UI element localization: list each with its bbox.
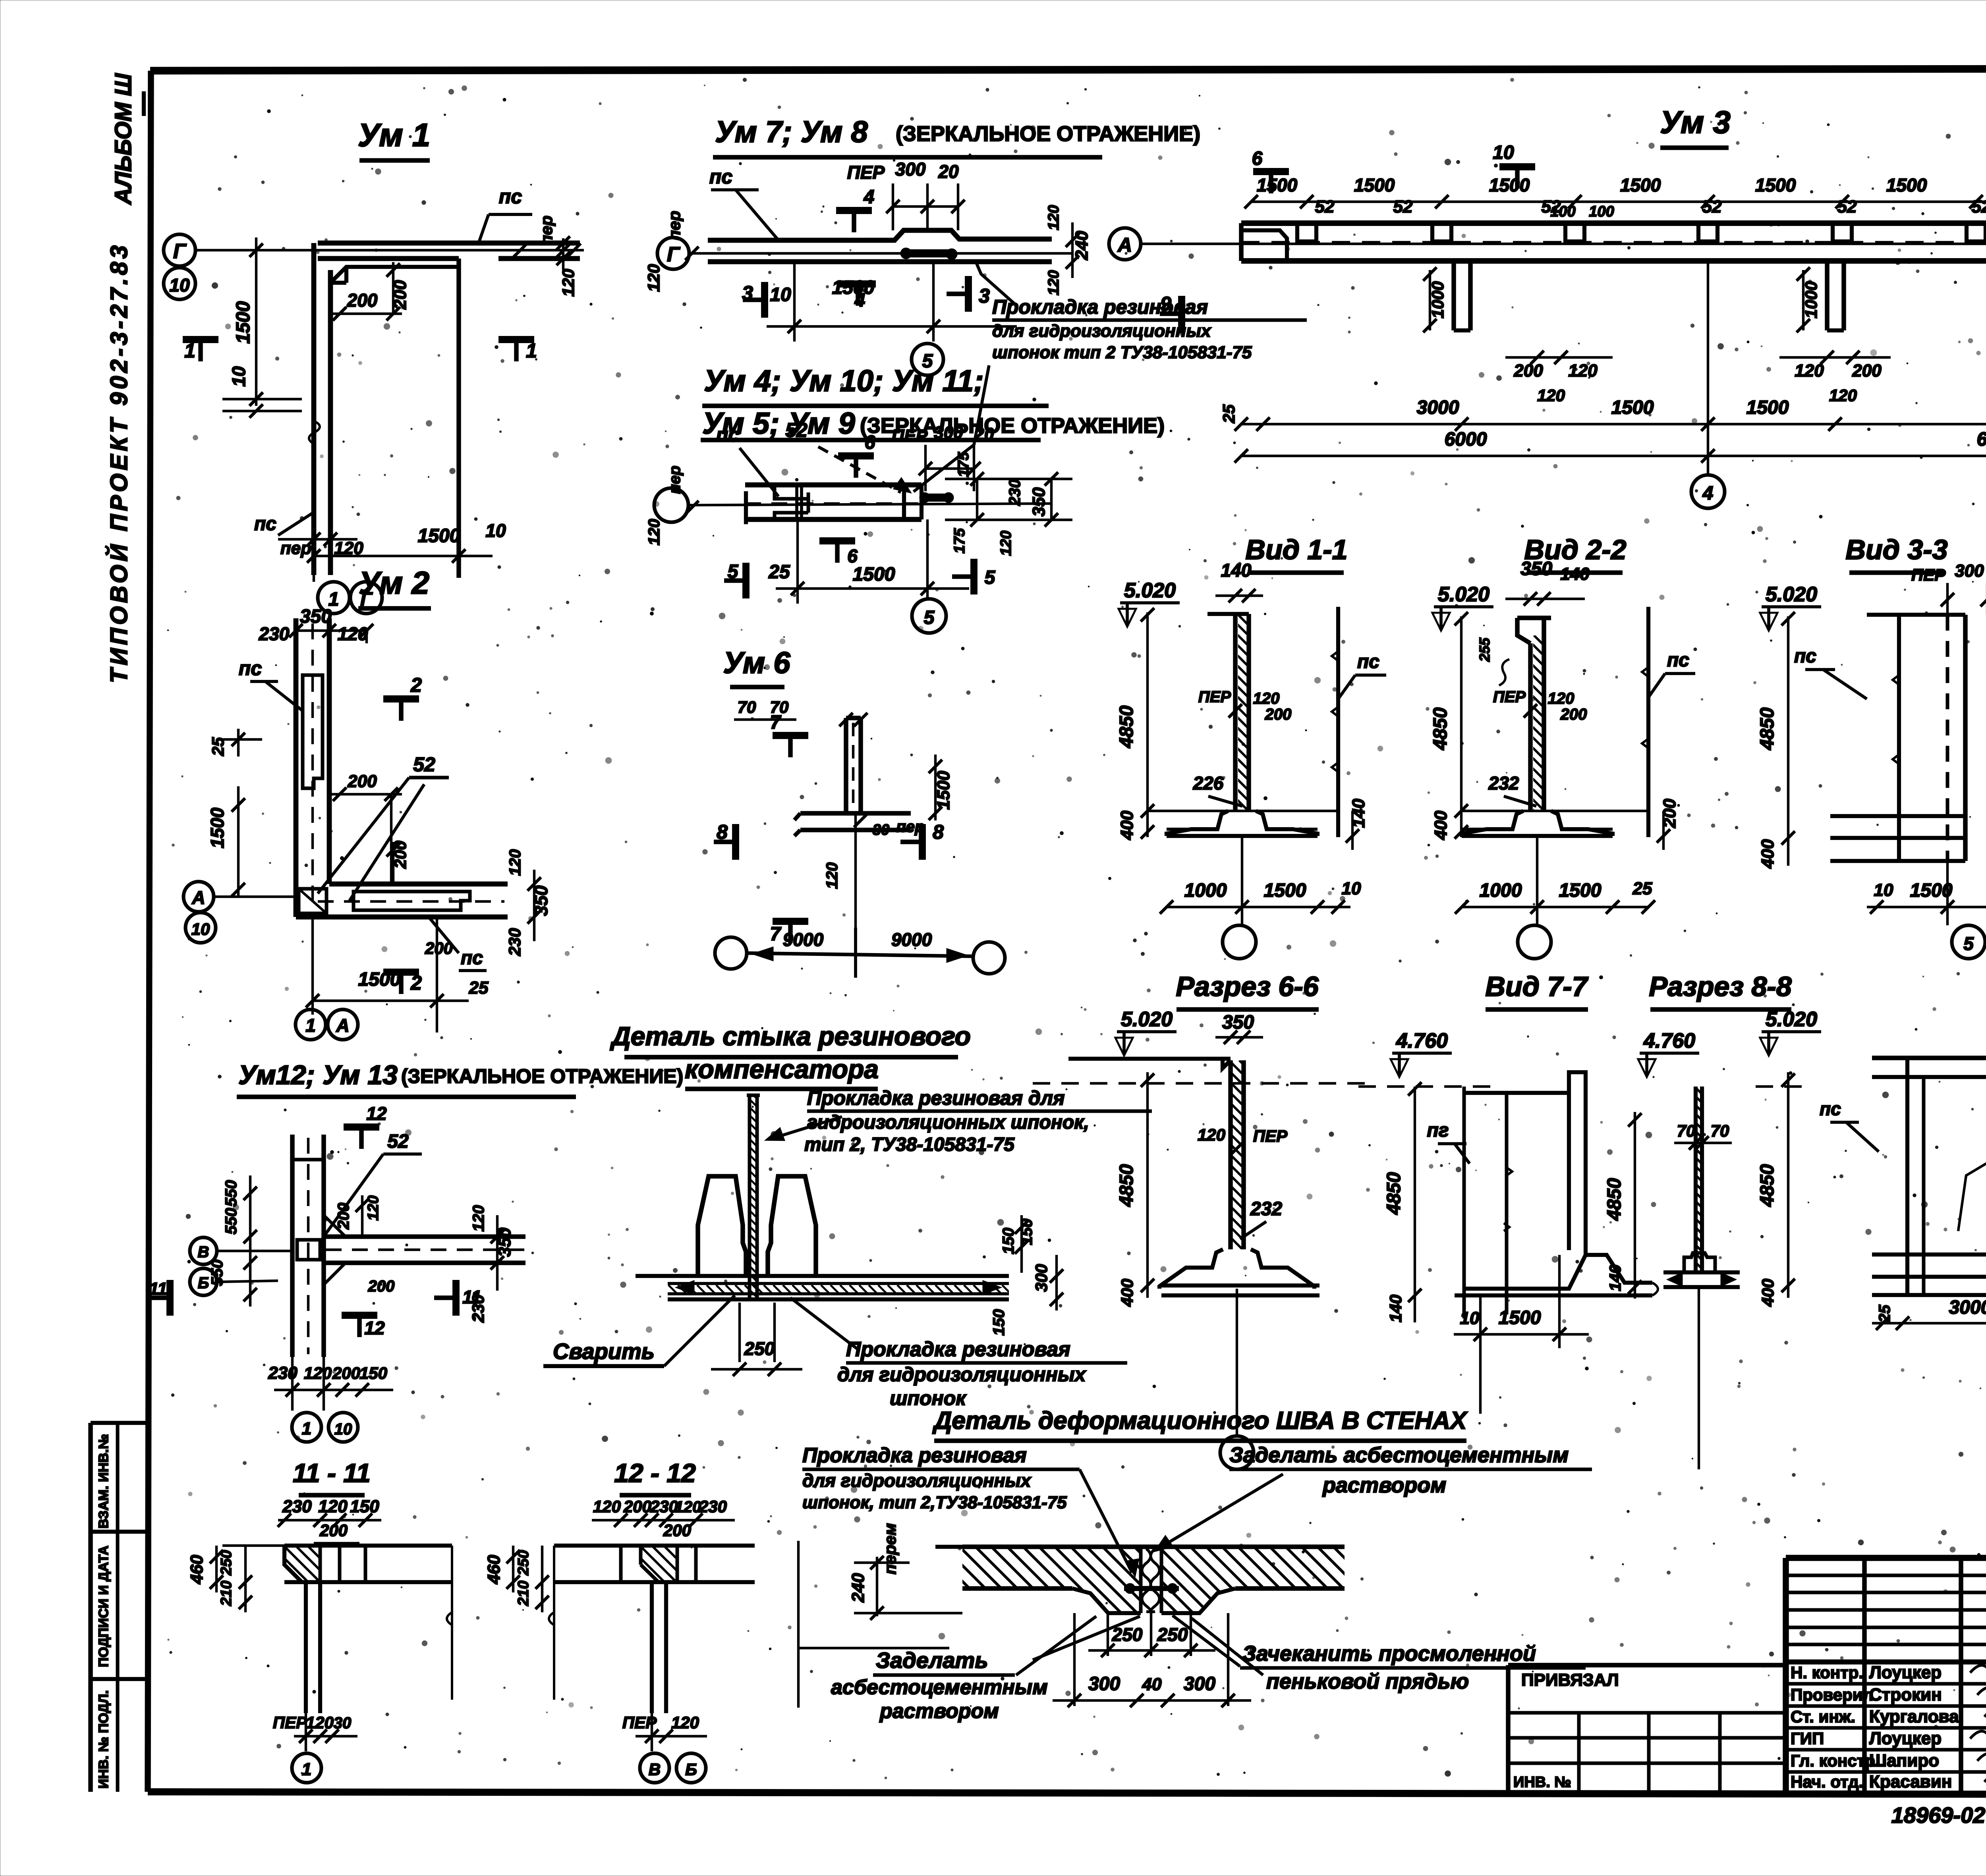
svg-text:400: 400: [1758, 1279, 1777, 1307]
svg-text:Проверил: Проверил: [1791, 1685, 1873, 1704]
svg-text:120: 120: [470, 1205, 487, 1232]
svg-text:150: 150: [990, 1309, 1008, 1336]
svg-text:25: 25: [469, 978, 489, 998]
svg-text:Лоуцкер: Лоуцкер: [1869, 1663, 1942, 1682]
svg-text:Ум 7; Ум 8: Ум 7; Ум 8: [715, 115, 868, 149]
svg-text:ВЗАМ. ИНВ.№: ВЗАМ. ИНВ.№: [96, 1434, 111, 1529]
svg-text:350: 350: [531, 885, 551, 916]
svg-text:25: 25: [1876, 1305, 1893, 1323]
svg-text:Шапиро: Шапиро: [1869, 1751, 1939, 1770]
svg-text:120: 120: [1795, 361, 1824, 380]
svg-text:1500: 1500: [1755, 175, 1796, 195]
svg-text:200: 200: [663, 1521, 691, 1540]
svg-text:10: 10: [334, 1421, 352, 1438]
svg-text:400: 400: [1758, 839, 1777, 869]
svg-text:1500: 1500: [1746, 397, 1789, 418]
svg-text:пс: пс: [499, 185, 522, 208]
svg-text:пс: пс: [1794, 646, 1816, 667]
svg-text:120: 120: [1253, 690, 1280, 707]
svg-text:8: 8: [933, 821, 944, 843]
svg-text:4: 4: [864, 187, 875, 208]
svg-text:3: 3: [979, 285, 990, 307]
svg-text:Сварить: Сварить: [553, 1339, 655, 1364]
svg-text:120: 120: [1568, 361, 1598, 380]
svg-text:10: 10: [191, 920, 210, 938]
svg-text:175: 175: [951, 528, 968, 553]
svg-text:5.020: 5.020: [1766, 1008, 1817, 1031]
svg-text:350: 350: [1520, 558, 1552, 579]
svg-text:460: 460: [187, 1555, 207, 1585]
svg-text:1500: 1500: [1910, 880, 1953, 901]
svg-text:1: 1: [184, 340, 195, 362]
svg-text:1: 1: [305, 1015, 316, 1036]
svg-text:1500: 1500: [832, 277, 875, 298]
svg-text:шпонок: шпонок: [890, 1387, 967, 1409]
svg-text:Ум 2: Ум 2: [359, 565, 429, 600]
svg-text:400: 400: [1431, 811, 1451, 840]
svg-text:140: 140: [1221, 560, 1252, 581]
svg-text:200: 200: [390, 280, 410, 310]
svg-text:раствором: раствором: [879, 1700, 999, 1723]
svg-text:5.020: 5.020: [1124, 579, 1176, 602]
svg-text:300: 300: [895, 159, 926, 179]
svg-text:255: 255: [1476, 637, 1493, 662]
svg-text:10: 10: [770, 284, 791, 305]
svg-text:для гидроизоляционных: для гидроизоляционных: [802, 1470, 1032, 1491]
svg-text:Деталь деформационного ШВА В: Деталь деформационного ШВА В СТЕНАХ: [932, 1407, 1468, 1434]
svg-text:(ЗЕРКАЛЬНОЕ ОТРАЖЕНИЕ): (ЗЕРКАЛЬНОЕ ОТРАЖЕНИЕ): [401, 1065, 683, 1087]
svg-text:120: 120: [1045, 205, 1062, 230]
svg-text:25: 25: [1632, 879, 1652, 898]
svg-text:230: 230: [259, 623, 290, 644]
svg-text:Разрез 8-8: Разрез 8-8: [1649, 971, 1791, 1002]
svg-text:200: 200: [332, 1364, 360, 1382]
svg-text:ПОДПИСИ И ДАТА: ПОДПИСИ И ДАТА: [96, 1546, 111, 1667]
svg-text:52: 52: [1315, 197, 1335, 216]
svg-text:5.020: 5.020: [1121, 1008, 1173, 1031]
svg-text:Б: Б: [198, 1274, 209, 1292]
svg-text:120: 120: [675, 1498, 701, 1516]
svg-text:Заделать асбестоцементным: Заделать асбестоцементным: [1229, 1443, 1569, 1467]
svg-text:пер: пер: [537, 216, 556, 245]
svg-text:пс: пс: [709, 166, 733, 188]
svg-text:2: 2: [410, 972, 422, 994]
svg-text:пер: пер: [280, 538, 311, 558]
svg-text:30: 30: [873, 822, 889, 838]
svg-text:120: 120: [559, 269, 578, 297]
svg-text:1500: 1500: [934, 771, 953, 810]
svg-text:200: 200: [335, 1203, 352, 1230]
svg-text:для гидроизоляционных: для гидроизоляционных: [837, 1363, 1087, 1386]
svg-text:1500: 1500: [1257, 175, 1298, 195]
svg-text:5: 5: [985, 567, 996, 588]
svg-text:5.020: 5.020: [1766, 583, 1817, 606]
svg-text:пс: пс: [239, 657, 262, 679]
svg-text:9000: 9000: [783, 929, 824, 950]
svg-text:А: А: [1117, 234, 1132, 256]
svg-text:25: 25: [1219, 404, 1238, 423]
svg-text:300: 300: [1032, 1264, 1051, 1292]
svg-text:раствором: раствором: [1322, 1473, 1446, 1497]
svg-text:Г: Г: [667, 243, 680, 266]
svg-text:200: 200: [347, 772, 377, 791]
svg-text:1000: 1000: [1184, 880, 1227, 901]
svg-text:4850: 4850: [1116, 705, 1137, 748]
svg-text:1500: 1500: [1499, 1307, 1541, 1328]
svg-text:226: 226: [1193, 773, 1224, 793]
svg-text:5.020: 5.020: [1438, 583, 1489, 606]
svg-text:70: 70: [1677, 1121, 1696, 1140]
svg-text:240: 240: [1072, 231, 1092, 261]
svg-text:200: 200: [368, 1278, 395, 1295]
svg-text:пс: пс: [254, 513, 276, 535]
svg-text:20: 20: [974, 425, 994, 444]
svg-text:550: 550: [209, 1260, 226, 1286]
svg-text:11: 11: [462, 1287, 481, 1307]
svg-text:25: 25: [768, 562, 790, 583]
svg-text:175: 175: [955, 452, 972, 477]
svg-text:Ум 3: Ум 3: [1660, 104, 1731, 140]
svg-text:гидроизоляционных шпонок,: гидроизоляционных шпонок,: [807, 1112, 1089, 1133]
svg-text:120: 120: [304, 1364, 332, 1382]
svg-text:1500: 1500: [1886, 175, 1927, 195]
svg-text:Вид 1-1: Вид 1-1: [1245, 534, 1347, 565]
svg-text:ГИП: ГИП: [1791, 1729, 1824, 1748]
svg-text:12: 12: [366, 1103, 387, 1124]
svg-text:11 - 11: 11 - 11: [293, 1458, 371, 1488]
svg-text:120: 120: [365, 1195, 382, 1220]
svg-text:230: 230: [505, 928, 524, 956]
svg-text:6000: 6000: [1445, 429, 1487, 450]
svg-text:6: 6: [847, 546, 858, 566]
svg-text:Г: Г: [173, 240, 187, 263]
svg-text:Ст. инж.: Ст. инж.: [1791, 1707, 1855, 1726]
svg-text:40: 40: [1142, 1675, 1162, 1694]
svg-text:200: 200: [623, 1497, 651, 1516]
svg-text:1: 1: [302, 1760, 311, 1779]
svg-text:4.760: 4.760: [1643, 1029, 1695, 1052]
svg-text:100: 100: [1589, 203, 1614, 220]
svg-text:4.760: 4.760: [1396, 1029, 1448, 1052]
svg-text:4850: 4850: [1604, 1178, 1625, 1221]
svg-text:300: 300: [1955, 561, 1984, 581]
svg-text:Кургалова: Кургалова: [1869, 1707, 1959, 1726]
svg-text:120: 120: [506, 849, 524, 876]
svg-text:120: 120: [338, 623, 368, 644]
svg-text:250: 250: [515, 1550, 532, 1575]
svg-text:400: 400: [1117, 811, 1137, 840]
svg-text:4850: 4850: [1383, 1172, 1404, 1215]
svg-text:210: 210: [515, 1581, 532, 1606]
svg-text:Б: Б: [685, 1760, 697, 1779]
svg-text:210: 210: [218, 1581, 235, 1606]
svg-text:10: 10: [485, 520, 506, 541]
svg-text:Ум 4; Ум 10; Ум 11;: Ум 4; Ум 10; Ум 11;: [704, 364, 984, 398]
svg-text:250: 250: [1157, 1624, 1188, 1645]
svg-text:Вид 3-3: Вид 3-3: [1845, 534, 1947, 565]
svg-text:230: 230: [650, 1497, 678, 1516]
svg-text:120: 120: [593, 1497, 621, 1516]
svg-text:2: 2: [410, 674, 422, 696]
svg-text:120: 120: [1045, 270, 1062, 295]
svg-text:4: 4: [1702, 483, 1714, 504]
svg-text:120: 120: [823, 863, 841, 889]
svg-text:7: 7: [770, 924, 782, 945]
svg-text:шпонок, тип 2,ТУ38-105831-75: шпонок, тип 2,ТУ38-105831-75: [802, 1493, 1067, 1512]
svg-text:1500: 1500: [853, 564, 895, 585]
svg-text:1500: 1500: [207, 807, 228, 848]
svg-text:9: 9: [1160, 293, 1171, 315]
svg-text:12: 12: [364, 1318, 385, 1338]
svg-text:ПЕР: ПЕР: [847, 162, 885, 183]
svg-text:6000: 6000: [1977, 429, 1986, 450]
svg-text:140: 140: [1560, 564, 1590, 584]
svg-text:250: 250: [218, 1550, 235, 1575]
svg-text:ИНВ. № ПОДЛ.: ИНВ. № ПОДЛ.: [96, 1690, 111, 1789]
svg-text:10: 10: [169, 275, 190, 295]
svg-text:230: 230: [1006, 479, 1024, 506]
svg-text:ТИПОВОЙ ПРОЕКТ 902-3-27.83: ТИПОВОЙ ПРОЕКТ 902-3-27.83: [105, 242, 132, 683]
svg-text:4850: 4850: [1430, 707, 1451, 750]
svg-text:18969-02: 18969-02: [1891, 1803, 1986, 1828]
svg-text:150: 150: [359, 1364, 387, 1382]
svg-text:А: А: [191, 887, 205, 908]
svg-text:ПЕР: ПЕР: [1493, 688, 1526, 706]
svg-text:Ум12; Ум 13: Ум12; Ум 13: [238, 1060, 398, 1090]
svg-text:ПЕР: ПЕР: [273, 1713, 307, 1732]
svg-text:10: 10: [1493, 142, 1514, 163]
svg-text:52: 52: [1837, 197, 1857, 216]
svg-text:4850: 4850: [1116, 1164, 1137, 1207]
svg-text:пер: пер: [896, 818, 924, 836]
svg-text:пс: пс: [1357, 651, 1379, 672]
svg-text:120: 120: [318, 1497, 348, 1516]
svg-text:52: 52: [413, 753, 435, 776]
svg-text:пер: пер: [666, 465, 684, 494]
svg-text:8: 8: [717, 821, 728, 843]
svg-text:1: 1: [302, 1419, 311, 1438]
svg-text:9000: 9000: [891, 929, 932, 950]
svg-text:пг: пг: [1427, 1120, 1449, 1141]
svg-text:10: 10: [1342, 879, 1361, 898]
svg-text:200: 200: [1265, 706, 1292, 723]
svg-text:6: 6: [1252, 148, 1263, 169]
svg-text:компенсатора: компенсатора: [685, 1054, 879, 1084]
svg-text:350: 350: [1029, 487, 1049, 517]
svg-text:Прокладка резиновая: Прокладка резиновая: [846, 1338, 1070, 1361]
svg-text:3000: 3000: [1417, 397, 1459, 418]
svg-text:120: 120: [1829, 386, 1857, 405]
svg-text:Прокладка резиновая для: Прокладка резиновая для: [807, 1087, 1064, 1109]
svg-text:ИНВ. №: ИНВ. №: [1513, 1774, 1571, 1791]
svg-text:Вид 7-7: Вид 7-7: [1485, 971, 1588, 1002]
svg-text:1000: 1000: [1480, 880, 1522, 901]
svg-text:120: 120: [1537, 386, 1565, 405]
svg-text:120: 120: [1198, 1125, 1225, 1144]
svg-text:Красавин: Красавин: [1869, 1772, 1952, 1791]
svg-text:1500: 1500: [418, 525, 460, 546]
svg-text:400: 400: [1118, 1279, 1136, 1307]
svg-text:200: 200: [319, 1521, 348, 1540]
svg-text:300: 300: [1088, 1673, 1120, 1695]
svg-text:В: В: [198, 1243, 209, 1261]
svg-text:Ум 6: Ум 6: [723, 646, 790, 680]
svg-text:5: 5: [728, 561, 739, 582]
svg-text:5: 5: [1963, 933, 1974, 954]
svg-text:Прокладка резиновая: Прокладка резиновая: [802, 1444, 1027, 1467]
svg-text:Зачеканить просмоленной: Зачеканить просмоленной: [1242, 1642, 1536, 1666]
svg-text:232: 232: [1488, 773, 1519, 793]
svg-text:пс: пс: [1820, 1098, 1841, 1119]
svg-text:120: 120: [644, 264, 663, 292]
svg-text:ПЕР: ПЕР: [1253, 1127, 1288, 1145]
svg-text:ПЕР: ПЕР: [892, 426, 928, 446]
svg-text:пс: пс: [716, 424, 740, 446]
svg-text:460: 460: [484, 1555, 504, 1585]
svg-text:шпонок тип 2 ТУ38-105831-75: шпонок тип 2 ТУ38-105831-75: [992, 343, 1252, 362]
svg-text:Н. контр.: Н. контр.: [1791, 1663, 1863, 1682]
svg-text:АЛЬБОМ Ш: АЛЬБОМ Ш: [110, 73, 136, 205]
svg-text:3: 3: [742, 282, 753, 304]
svg-text:120: 120: [306, 1713, 334, 1732]
svg-text:7: 7: [770, 712, 782, 733]
svg-text:200: 200: [1513, 361, 1543, 380]
svg-text:1500: 1500: [1489, 175, 1530, 195]
svg-text:1500: 1500: [358, 969, 401, 990]
svg-text:Ум 1: Ум 1: [358, 117, 431, 153]
svg-text:Строкин: Строкин: [1869, 1685, 1942, 1704]
svg-text:5: 5: [924, 607, 935, 628]
svg-text:120: 120: [645, 519, 663, 546]
svg-text:Заделать: Заделать: [876, 1648, 988, 1673]
svg-text:240: 240: [848, 1573, 868, 1603]
svg-text:1500: 1500: [233, 301, 254, 344]
svg-text:6: 6: [865, 432, 875, 453]
svg-text:1500: 1500: [1620, 175, 1661, 195]
svg-text:550: 550: [222, 1180, 240, 1207]
svg-text:200: 200: [1560, 706, 1587, 723]
svg-text:70: 70: [738, 698, 756, 716]
svg-text:пс: пс: [1667, 650, 1689, 671]
svg-text:10: 10: [1874, 880, 1893, 900]
svg-text:200: 200: [1852, 361, 1882, 380]
svg-text:В: В: [649, 1760, 661, 1779]
svg-text:140: 140: [1607, 1265, 1624, 1291]
svg-text:А: А: [336, 1015, 349, 1036]
svg-text:232: 232: [1250, 1199, 1282, 1220]
svg-text:150: 150: [1000, 1228, 1017, 1255]
svg-text:12 - 12: 12 - 12: [614, 1458, 696, 1488]
svg-text:ПЕР: ПЕР: [1198, 688, 1231, 706]
svg-text:пер: пер: [665, 211, 684, 241]
svg-text:20: 20: [938, 161, 959, 182]
svg-text:120: 120: [671, 1713, 699, 1732]
svg-text:1500: 1500: [1264, 880, 1306, 901]
svg-text:4850: 4850: [1757, 707, 1778, 750]
svg-text:120: 120: [998, 531, 1014, 556]
svg-text:250: 250: [744, 1338, 775, 1359]
svg-text:пс: пс: [461, 948, 483, 969]
svg-text:асбестоцементным: асбестоцементным: [831, 1676, 1048, 1699]
svg-text:Гл. констр.: Гл. констр.: [1791, 1751, 1880, 1770]
svg-text:300: 300: [1184, 1673, 1215, 1695]
svg-text:100: 100: [1550, 203, 1575, 220]
svg-text:230: 230: [699, 1497, 727, 1516]
svg-text:1500: 1500: [1354, 175, 1395, 195]
svg-text:3000: 3000: [1949, 1297, 1986, 1318]
svg-text:300: 300: [934, 423, 963, 442]
svg-text:(ЗЕРКАЛЬНОЕ ОТРАЖЕНИЕ): (ЗЕРКАЛЬНОЕ ОТРАЖЕНИЕ): [896, 122, 1200, 146]
svg-text:Нач. отд.: Нач. отд.: [1791, 1772, 1863, 1791]
svg-text:1500: 1500: [1611, 397, 1654, 418]
svg-text:52: 52: [1393, 197, 1413, 216]
svg-text:Разрез 6-6: Разрез 6-6: [1176, 971, 1319, 1002]
svg-text:10: 10: [228, 366, 249, 387]
svg-text:52: 52: [785, 419, 808, 441]
svg-text:150: 150: [350, 1497, 379, 1516]
svg-text:120: 120: [1548, 690, 1575, 707]
svg-text:Деталь стыка резинового: Деталь стыка резинового: [610, 1021, 971, 1051]
svg-text:Лоуцкер: Лоуцкер: [1869, 1729, 1942, 1748]
svg-text:140: 140: [1386, 1295, 1405, 1322]
svg-text:11: 11: [149, 1279, 167, 1299]
svg-text:ПЕР: ПЕР: [1911, 566, 1946, 584]
svg-text:230: 230: [282, 1497, 312, 1516]
svg-text:4850: 4850: [1757, 1164, 1778, 1207]
svg-text:ПРИВЯЗАЛ: ПРИВЯЗАЛ: [1521, 1670, 1619, 1690]
svg-text:пеньковой прядью: пеньковой прядью: [1266, 1669, 1469, 1693]
svg-text:550: 550: [222, 1208, 240, 1235]
svg-text:30: 30: [334, 1714, 352, 1732]
svg-text:70: 70: [1711, 1121, 1729, 1140]
svg-text:10: 10: [1460, 1309, 1480, 1328]
svg-text:200: 200: [425, 939, 453, 957]
svg-text:200: 200: [347, 290, 378, 311]
svg-text:1500: 1500: [1559, 880, 1602, 901]
svg-text:перем: перем: [881, 1523, 899, 1574]
svg-text:1: 1: [526, 340, 537, 362]
